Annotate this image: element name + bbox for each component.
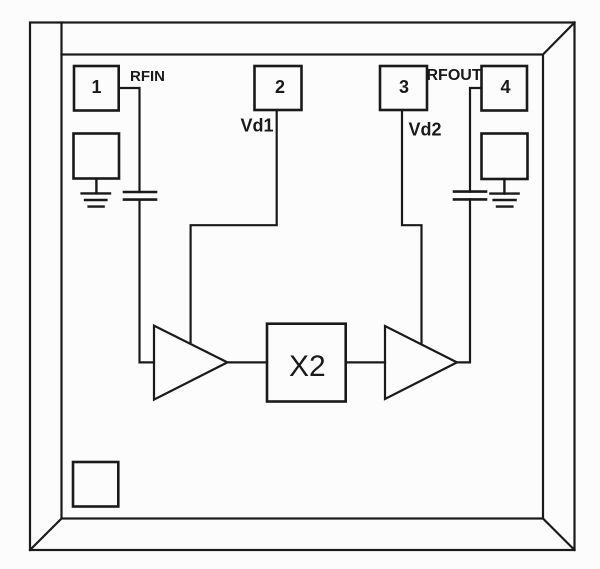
pad 1	[74, 66, 119, 111]
wire X2 to amp U2 in	[346, 361, 385, 363]
capacitor C2 bottom plate	[454, 198, 486, 201]
wire Vd1 pad2 to amp U1	[191, 110, 277, 342]
package inner outline	[62, 55, 544, 519]
corner seam bottom-left (diagonal)	[30, 519, 62, 551]
svg-text:4: 4	[500, 77, 510, 97]
svg-text:1: 1	[91, 77, 101, 97]
wire RFIN pad1 to cap C1	[119, 88, 140, 192]
ground symbol right bar 2	[494, 199, 516, 201]
corner seam top-left (vertical)	[60, 23, 62, 55]
wire cap C1 to amp U1 input	[140, 200, 155, 363]
pad 4	[482, 66, 528, 111]
capacitor C1 bottom plate	[124, 198, 156, 201]
svg-text:Vd2: Vd2	[409, 120, 442, 140]
ground symbol left bar 3	[89, 205, 104, 207]
svg-text:3: 3	[399, 77, 409, 97]
ground via pad right	[482, 134, 528, 180]
svg-text:X2: X2	[289, 350, 326, 383]
ground via pad left	[74, 134, 120, 179]
svg-text:2: 2	[275, 77, 285, 97]
ground symbol left bar 2	[85, 199, 106, 201]
svg-text:RFOUT: RFOUT	[427, 67, 482, 84]
ground symbol right stem	[503, 179, 505, 194]
capacitor C1 top plate	[124, 191, 156, 194]
ground symbol right bar 1	[490, 192, 518, 194]
corner seam top-right (diagonal)	[543, 23, 575, 55]
svg-text:Vd1: Vd1	[241, 116, 274, 136]
wire amp U1 out to X2	[227, 361, 267, 363]
amplifier U2	[385, 326, 457, 399]
corner seam bottom-right (diagonal)	[543, 519, 575, 551]
doubler X2 box	[267, 324, 346, 402]
ground symbol left stem	[95, 179, 97, 194]
wire amp U2 out to cap C2	[457, 199, 470, 362]
ground symbol left bar 1	[82, 192, 110, 194]
capacitor C2 top plate	[454, 190, 486, 193]
amplifier U1	[154, 326, 227, 400]
wire Vd2 pad3 to amp U2	[402, 110, 422, 344]
svg-text:RFIN: RFIN	[130, 68, 165, 85]
pad 2	[255, 66, 302, 110]
ground symbol right bar 3	[497, 205, 512, 207]
pad 3	[380, 66, 427, 110]
via square bottom-left	[73, 462, 118, 507]
wire cap C2 to RFOUT pad4	[470, 88, 482, 192]
